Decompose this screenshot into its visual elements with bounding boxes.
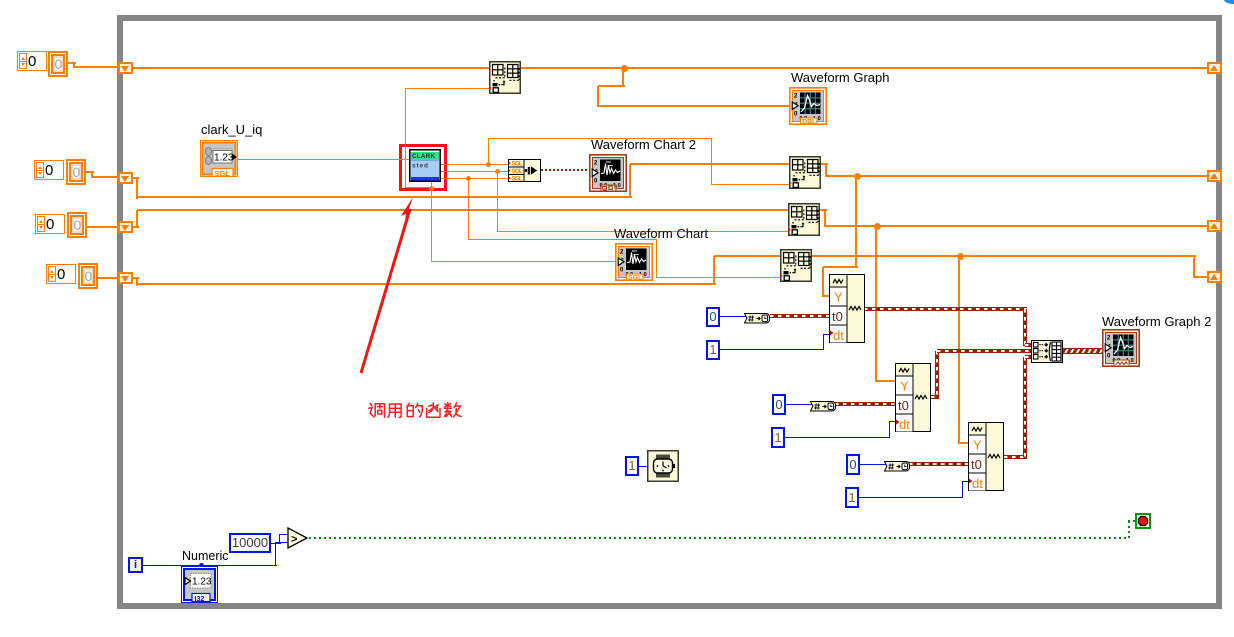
loop tunnel T2 (left) xyxy=(118,172,133,184)
red annotation arrow xyxy=(357,197,417,377)
numeric control 3 icon terminal xyxy=(67,212,87,238)
svg-text:dt: dt xyxy=(972,476,983,491)
loop tunnel T3 (left) xyxy=(118,221,133,233)
wire T4 stub xyxy=(133,277,139,279)
wire T4 elbow xyxy=(136,278,138,286)
to-timestamp conversion 1 xyxy=(744,311,770,322)
wire node A out to tunnel T6 xyxy=(826,175,1208,177)
numeric control 1 icon terminal xyxy=(48,51,68,77)
label Numeric xyxy=(182,549,229,563)
waveform wire BW2 out xyxy=(931,395,939,399)
wire drop into Numeric xyxy=(201,565,202,567)
wire to build-waveform 1 Y xyxy=(823,266,858,268)
wire into Waveform Graph xyxy=(598,105,790,107)
timestamp wire conv3 to t0 xyxy=(909,462,969,466)
wire 10000 out xyxy=(271,543,281,544)
wire junction xyxy=(874,223,881,230)
wire junction xyxy=(429,186,434,191)
wire to subVI bottom junction xyxy=(405,187,432,188)
to-timestamp conversion 2 xyxy=(810,399,836,410)
merge signals node xyxy=(508,159,541,182)
wire out3 drop xyxy=(656,239,657,278)
wire const 1 rise xyxy=(823,334,824,349)
wire node B out xyxy=(820,209,827,211)
wire T4 rise xyxy=(713,256,715,284)
label Waveform Chart 2 xyxy=(591,137,696,152)
control clark_U_iq terminal xyxy=(200,140,238,177)
waveform wire BW1 out xyxy=(864,307,1027,311)
wire node B out to tunnel T7 xyxy=(825,225,1208,227)
wire out2 branch down xyxy=(497,171,498,232)
wire into node C top xyxy=(714,255,781,257)
constant 1 (group2) xyxy=(771,427,785,448)
wire tunnel1 to replace-array node D xyxy=(133,67,490,69)
wire out1 branch up xyxy=(488,138,489,164)
wire into comparator xyxy=(275,542,288,543)
wire control1 stub xyxy=(74,66,118,68)
loop tunnel T5 (right) xyxy=(1207,62,1222,74)
timestamp wire conv1 to t0 xyxy=(770,314,830,318)
build waveform node 1 xyxy=(829,274,865,343)
wire into dt 2 xyxy=(889,421,896,422)
wire subVI out1 to merge xyxy=(441,164,509,165)
wire into node B bottom xyxy=(497,231,789,232)
wire T2 rise xyxy=(629,164,631,197)
wire junction xyxy=(854,173,861,180)
waveform wire into build-array row1 xyxy=(1025,343,1032,347)
constant 1 (wait) xyxy=(625,456,639,476)
wire junction xyxy=(466,176,471,181)
svg-text:>: > xyxy=(291,534,297,546)
wire control1 stub xyxy=(68,62,76,64)
label Waveform Graph xyxy=(791,70,890,85)
wire const 1 group2 xyxy=(785,437,890,438)
wire into build-waveform 3 Y xyxy=(959,442,969,444)
replace array subset node B xyxy=(788,203,820,236)
wire into build-waveform 1 Y xyxy=(823,295,830,297)
comparator greater-than xyxy=(287,527,309,549)
wire subVI bottom out drop xyxy=(431,180,432,262)
wire node D element input xyxy=(405,88,489,89)
numeric control 2 icon terminal xyxy=(66,159,86,185)
wire junction xyxy=(486,162,491,167)
svg-text:CLARK: CLARK xyxy=(412,153,436,160)
wire branch to build-waveform 3 Y xyxy=(958,256,960,444)
wire control3 stub xyxy=(87,226,118,228)
svg-text:sted: sted xyxy=(412,163,428,170)
svg-text:1.23: 1.23 xyxy=(214,153,234,164)
indicator Numeric xyxy=(181,566,218,603)
wire const 1 to wait node xyxy=(639,466,648,467)
boolean wire comparator to stop terminal xyxy=(309,537,1129,539)
wire T2 elbow xyxy=(136,178,138,199)
svg-text:dt: dt xyxy=(833,328,844,343)
constant 0 (group2) xyxy=(772,394,786,415)
waveform wire BW3 out xyxy=(1004,455,1027,459)
wire junction xyxy=(957,253,964,260)
wire T4 long run xyxy=(137,283,716,285)
timestamp wire conv2 to t0 xyxy=(835,402,896,406)
loop tunnel T8 (right) xyxy=(1207,271,1222,283)
wire into comparator upper input xyxy=(279,534,288,535)
build waveform node 2 xyxy=(895,363,931,432)
numeric control 3 (digital display) xyxy=(35,214,65,234)
waveform-array wire build-array to Waveform Graph 2 xyxy=(1063,348,1103,354)
numeric control 4 (digital display) xyxy=(46,264,76,284)
wire control2 stub xyxy=(92,176,118,178)
loop tunnel T7 (right) xyxy=(1207,220,1222,232)
dynamic-data wire merge to Waveform Chart 2 xyxy=(541,169,589,171)
wire junction xyxy=(495,169,500,174)
replace array subset node C xyxy=(780,249,812,282)
wire subVI out3 to merge xyxy=(441,178,509,179)
build array node xyxy=(1031,340,1063,363)
svg-text:dt: dt xyxy=(899,417,910,432)
wire const 1 group1 xyxy=(719,349,824,350)
waveform wire BW3 rise xyxy=(1023,357,1027,457)
wire T3 stub xyxy=(133,226,139,228)
wire into node A bottom xyxy=(711,184,790,185)
wire into dt 1 xyxy=(823,334,830,335)
constant 10000 xyxy=(229,533,271,553)
numeric control 1 (digital display) xyxy=(17,51,47,71)
wire out3 branch down xyxy=(468,178,469,240)
waveform wire into build-array row2 xyxy=(937,349,1032,353)
wire node C out to tunnel T8 xyxy=(1194,276,1208,278)
waveform wire into build-array row3 xyxy=(1025,355,1032,359)
wire iteration terminal xyxy=(143,565,277,566)
label Waveform Chart xyxy=(614,226,708,241)
wire node D to right tunnel T5 xyxy=(520,67,1208,69)
wire T2 stub xyxy=(133,177,139,179)
wire out1 run xyxy=(488,138,712,139)
wire to build-waveform 1 Y xyxy=(822,267,824,297)
wire const 0 to conversion 3 xyxy=(860,464,892,465)
wire subVI out2 to merge xyxy=(441,171,509,172)
wire branch to build-waveform 1 Y xyxy=(855,176,857,268)
red annotation text 调用的函数 xyxy=(368,401,464,420)
wire node A out elbow xyxy=(825,164,827,177)
svg-text:Y: Y xyxy=(834,290,843,305)
wire node C out elbow xyxy=(1193,256,1195,278)
indicator Waveform Chart xyxy=(615,243,653,281)
red annotation rectangle around subVI xyxy=(399,144,447,191)
wire branch to waveform graph xyxy=(622,68,624,87)
replace array subset node A xyxy=(789,156,821,189)
waveform wire BW1 drop xyxy=(1023,309,1027,346)
wire into node C bottom xyxy=(656,277,781,278)
label Waveform Graph 2 xyxy=(1102,314,1211,329)
indicator Waveform Graph 2 xyxy=(1102,329,1140,367)
numeric control 2 (digital display) xyxy=(34,160,64,180)
wire junction to Numeric xyxy=(199,563,204,568)
wire T3 elbow xyxy=(136,210,138,227)
wire node C out xyxy=(812,255,1196,257)
svg-text:Y: Y xyxy=(973,438,982,453)
wire node B out elbow xyxy=(824,210,826,227)
constant 1 (group1) xyxy=(706,340,720,360)
wire junction xyxy=(621,65,628,72)
svg-text:Y: Y xyxy=(900,379,909,394)
indicator Waveform Graph xyxy=(789,87,827,125)
label clark_U_iq xyxy=(201,122,262,137)
wire out3 run xyxy=(468,239,657,240)
svg-text:DBL: DBL xyxy=(802,118,816,125)
wait ms node xyxy=(647,450,679,482)
waveform wire BW2 rise xyxy=(935,351,939,397)
svg-text:t0: t0 xyxy=(898,398,909,413)
wire into node A top xyxy=(630,163,790,165)
loop condition stop terminal xyxy=(1135,513,1151,529)
wire node D element drop xyxy=(405,88,406,188)
loop tunnel T4 (left) xyxy=(118,272,133,284)
svg-text:t0: t0 xyxy=(832,309,843,324)
numeric control 4 icon terminal xyxy=(78,263,98,289)
loop tunnel T1 (left) xyxy=(118,62,133,74)
svg-text:1.23: 1.23 xyxy=(192,577,212,588)
svg-text:SGL: SGL xyxy=(512,175,523,182)
wire const 1 rise xyxy=(889,421,890,437)
subVI CLARK (clark_step) xyxy=(409,149,441,182)
constant 0 (group1) xyxy=(706,307,720,327)
wire out1 drop xyxy=(711,138,712,184)
wire control2 stub xyxy=(91,172,93,178)
wire branch to build-waveform 2 Y xyxy=(875,226,877,382)
to-timestamp conversion 3 xyxy=(884,459,910,470)
wire const 0 to conversion 1 xyxy=(719,316,752,317)
wire into Waveform Chart xyxy=(431,261,616,262)
svg-text:SGL: SGL xyxy=(215,169,231,177)
wire into node B top xyxy=(137,209,789,211)
replace array subset node D xyxy=(489,61,521,94)
loop tunnel T6 (right) xyxy=(1207,170,1222,182)
wire clark_U_iq to subVI input xyxy=(238,159,409,160)
wire const 1 group3 xyxy=(859,497,963,498)
wire control1 stub xyxy=(73,63,75,68)
constant 0 (group3) xyxy=(846,454,860,475)
svg-text:t0: t0 xyxy=(971,457,982,472)
svg-text:SGL: SGL xyxy=(512,160,523,167)
wire 10000 rise xyxy=(279,534,280,544)
wire const 1 rise xyxy=(962,481,963,497)
decorative blue corner glyph xyxy=(1223,0,1234,4)
wire into build-waveform 2 Y xyxy=(876,380,896,382)
svg-text:SGL: SGL xyxy=(628,274,642,281)
wire const 0 to conversion 2 xyxy=(786,404,818,405)
indicator Waveform Chart 2 xyxy=(589,154,627,192)
wire branch to waveform graph xyxy=(597,86,599,107)
iteration terminal i xyxy=(128,557,143,573)
svg-text:SGL: SGL xyxy=(512,168,523,175)
wire control2 stub xyxy=(86,171,94,173)
wire T2 long run xyxy=(137,196,632,198)
build waveform node 3 xyxy=(968,422,1004,491)
wire into dt 3 xyxy=(962,481,969,482)
wire node A out xyxy=(821,163,828,165)
constant 1 (group3) xyxy=(845,487,859,508)
wire branch to waveform graph xyxy=(598,85,625,87)
wire to comparator lower input xyxy=(275,542,276,566)
wire control4 stub xyxy=(98,277,118,279)
svg-text:I32: I32 xyxy=(195,596,205,603)
